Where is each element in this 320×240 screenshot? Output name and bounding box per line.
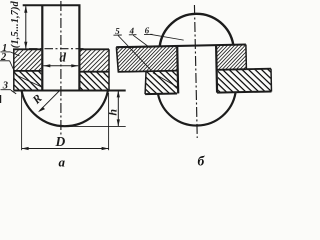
svg-text:а: а xyxy=(59,155,66,170)
svg-text:6: 6 xyxy=(145,25,150,35)
svg-text:h: h xyxy=(106,109,120,116)
plate 4 upper-left hatched block xyxy=(116,46,177,72)
plate 1 upper-right hatched block xyxy=(80,49,109,71)
plate bottom edge / head chord line xyxy=(14,90,126,92)
part label 6 xyxy=(144,25,184,41)
plate outlines left block xyxy=(13,49,41,90)
rivet shank (figure a) xyxy=(23,5,81,90)
rivet bottom head (figure b) xyxy=(158,93,236,126)
svg-text:(1,5...1,7)d: (1,5...1,7)d xyxy=(10,0,21,48)
part label 3 xyxy=(1,81,17,94)
svg-text:D: D xyxy=(55,134,66,149)
dimension D : extension lines, line, arrows, text xyxy=(22,93,109,150)
dashed reference line at plate top (figure a) xyxy=(29,48,84,50)
part label 4 xyxy=(128,25,177,88)
centerline (figure b) xyxy=(194,5,197,138)
rivet head arc (figure a) xyxy=(22,91,108,126)
plate 5 lower-left hatched block xyxy=(145,71,177,94)
plate 1 upper-left hatched block xyxy=(14,49,42,71)
part label 5 xyxy=(113,25,151,71)
scan mark left edge xyxy=(0,95,2,103)
rivet ball head (figure b) xyxy=(159,13,233,46)
dimension h : line, arrows, extension, text xyxy=(63,90,126,126)
centerline (figure a) xyxy=(60,1,62,135)
dimension (1,5...1,7)d : line and arrows xyxy=(24,6,27,49)
part label 2 xyxy=(0,52,43,88)
plate 4 upper-right hatched block xyxy=(216,45,246,70)
rivet shank (figure b) xyxy=(177,45,217,93)
part label 1 xyxy=(1,43,20,56)
lower plate outlines xyxy=(145,69,272,94)
upper plate outlines xyxy=(116,45,246,72)
plate outlines right block xyxy=(80,49,109,90)
plate 2 lower-left hatched block xyxy=(14,71,42,90)
svg-text:4: 4 xyxy=(128,26,134,36)
dimension d : arrows and text xyxy=(43,64,78,67)
plate 5 lower-right hatched block xyxy=(218,69,272,93)
svg-text:d: d xyxy=(60,49,67,64)
svg-text:5: 5 xyxy=(115,26,120,36)
radius R arrow and label xyxy=(38,91,59,112)
plate 2 lower-right hatched block xyxy=(80,71,109,90)
